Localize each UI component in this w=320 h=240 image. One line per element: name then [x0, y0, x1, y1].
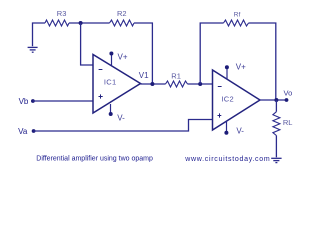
wire node A down to IC1 inverting input	[81, 23, 93, 65]
IC1 V- pin	[110, 104, 112, 114]
svg-text:R2: R2	[117, 9, 127, 18]
op-amp IC1	[93, 55, 141, 114]
wire Rf down to Vo node	[249, 23, 276, 100]
node B junction	[198, 82, 202, 86]
resistor R1	[166, 81, 188, 87]
wire IC2 output to Vo	[260, 99, 287, 101]
node V1 junction	[150, 82, 154, 86]
wire R3 to node A	[69, 22, 110, 24]
wire Va to IC2 + input	[34, 120, 213, 132]
node Vo junction	[274, 98, 278, 102]
wire top rail left segment	[33, 23, 46, 46]
wire R1 to IC2 inverting input	[188, 83, 213, 85]
svg-text:www.circuitstoday.com: www.circuitstoday.com	[184, 156, 270, 163]
wire node B up to Rf	[200, 23, 223, 84]
svg-text:V+: V+	[118, 53, 128, 62]
wire RL to ground	[275, 136, 277, 158]
IC1 V+ pin	[111, 54, 113, 66]
node A junction	[79, 21, 83, 25]
plus sign IC1	[99, 94, 103, 98]
svg-text:V+: V+	[236, 63, 246, 72]
minus sign IC2	[218, 86, 222, 88]
svg-text:R3: R3	[57, 9, 67, 18]
resistor Rf	[224, 20, 249, 26]
svg-text:Vb: Vb	[19, 97, 29, 106]
wire Vo down to RL	[275, 100, 277, 112]
plus sign IC2	[218, 113, 222, 117]
op-amp IC2	[213, 70, 261, 130]
svg-text:V-: V-	[236, 127, 244, 136]
svg-text:Differential amplifier using t: Differential amplifier using two opamp	[36, 156, 153, 163]
minus sign IC1	[99, 69, 103, 71]
wire R2 to V1 node	[134, 23, 152, 84]
ground (left)	[28, 47, 38, 52]
resistor R2	[110, 20, 135, 26]
wire Vb to IC1 + input	[33, 100, 93, 102]
svg-text:IC2: IC2	[221, 95, 234, 104]
svg-text:R1: R1	[171, 71, 181, 80]
svg-text:Va: Va	[18, 127, 28, 136]
svg-text:Rf: Rf	[234, 12, 241, 19]
IC2 V- pin	[226, 121, 228, 133]
resistor R3	[45, 20, 69, 26]
IC2 V+ pin	[226, 67, 228, 79]
resistor RL	[273, 112, 280, 136]
svg-text:RL: RL	[283, 118, 293, 127]
ground (right)	[271, 158, 281, 162]
svg-text:V-: V-	[117, 114, 125, 123]
svg-text:V1: V1	[139, 71, 149, 80]
svg-text:Vo: Vo	[284, 88, 293, 97]
terminal Vo	[285, 98, 289, 102]
wire IC1 output	[141, 83, 166, 85]
svg-text:IC1: IC1	[104, 78, 117, 87]
